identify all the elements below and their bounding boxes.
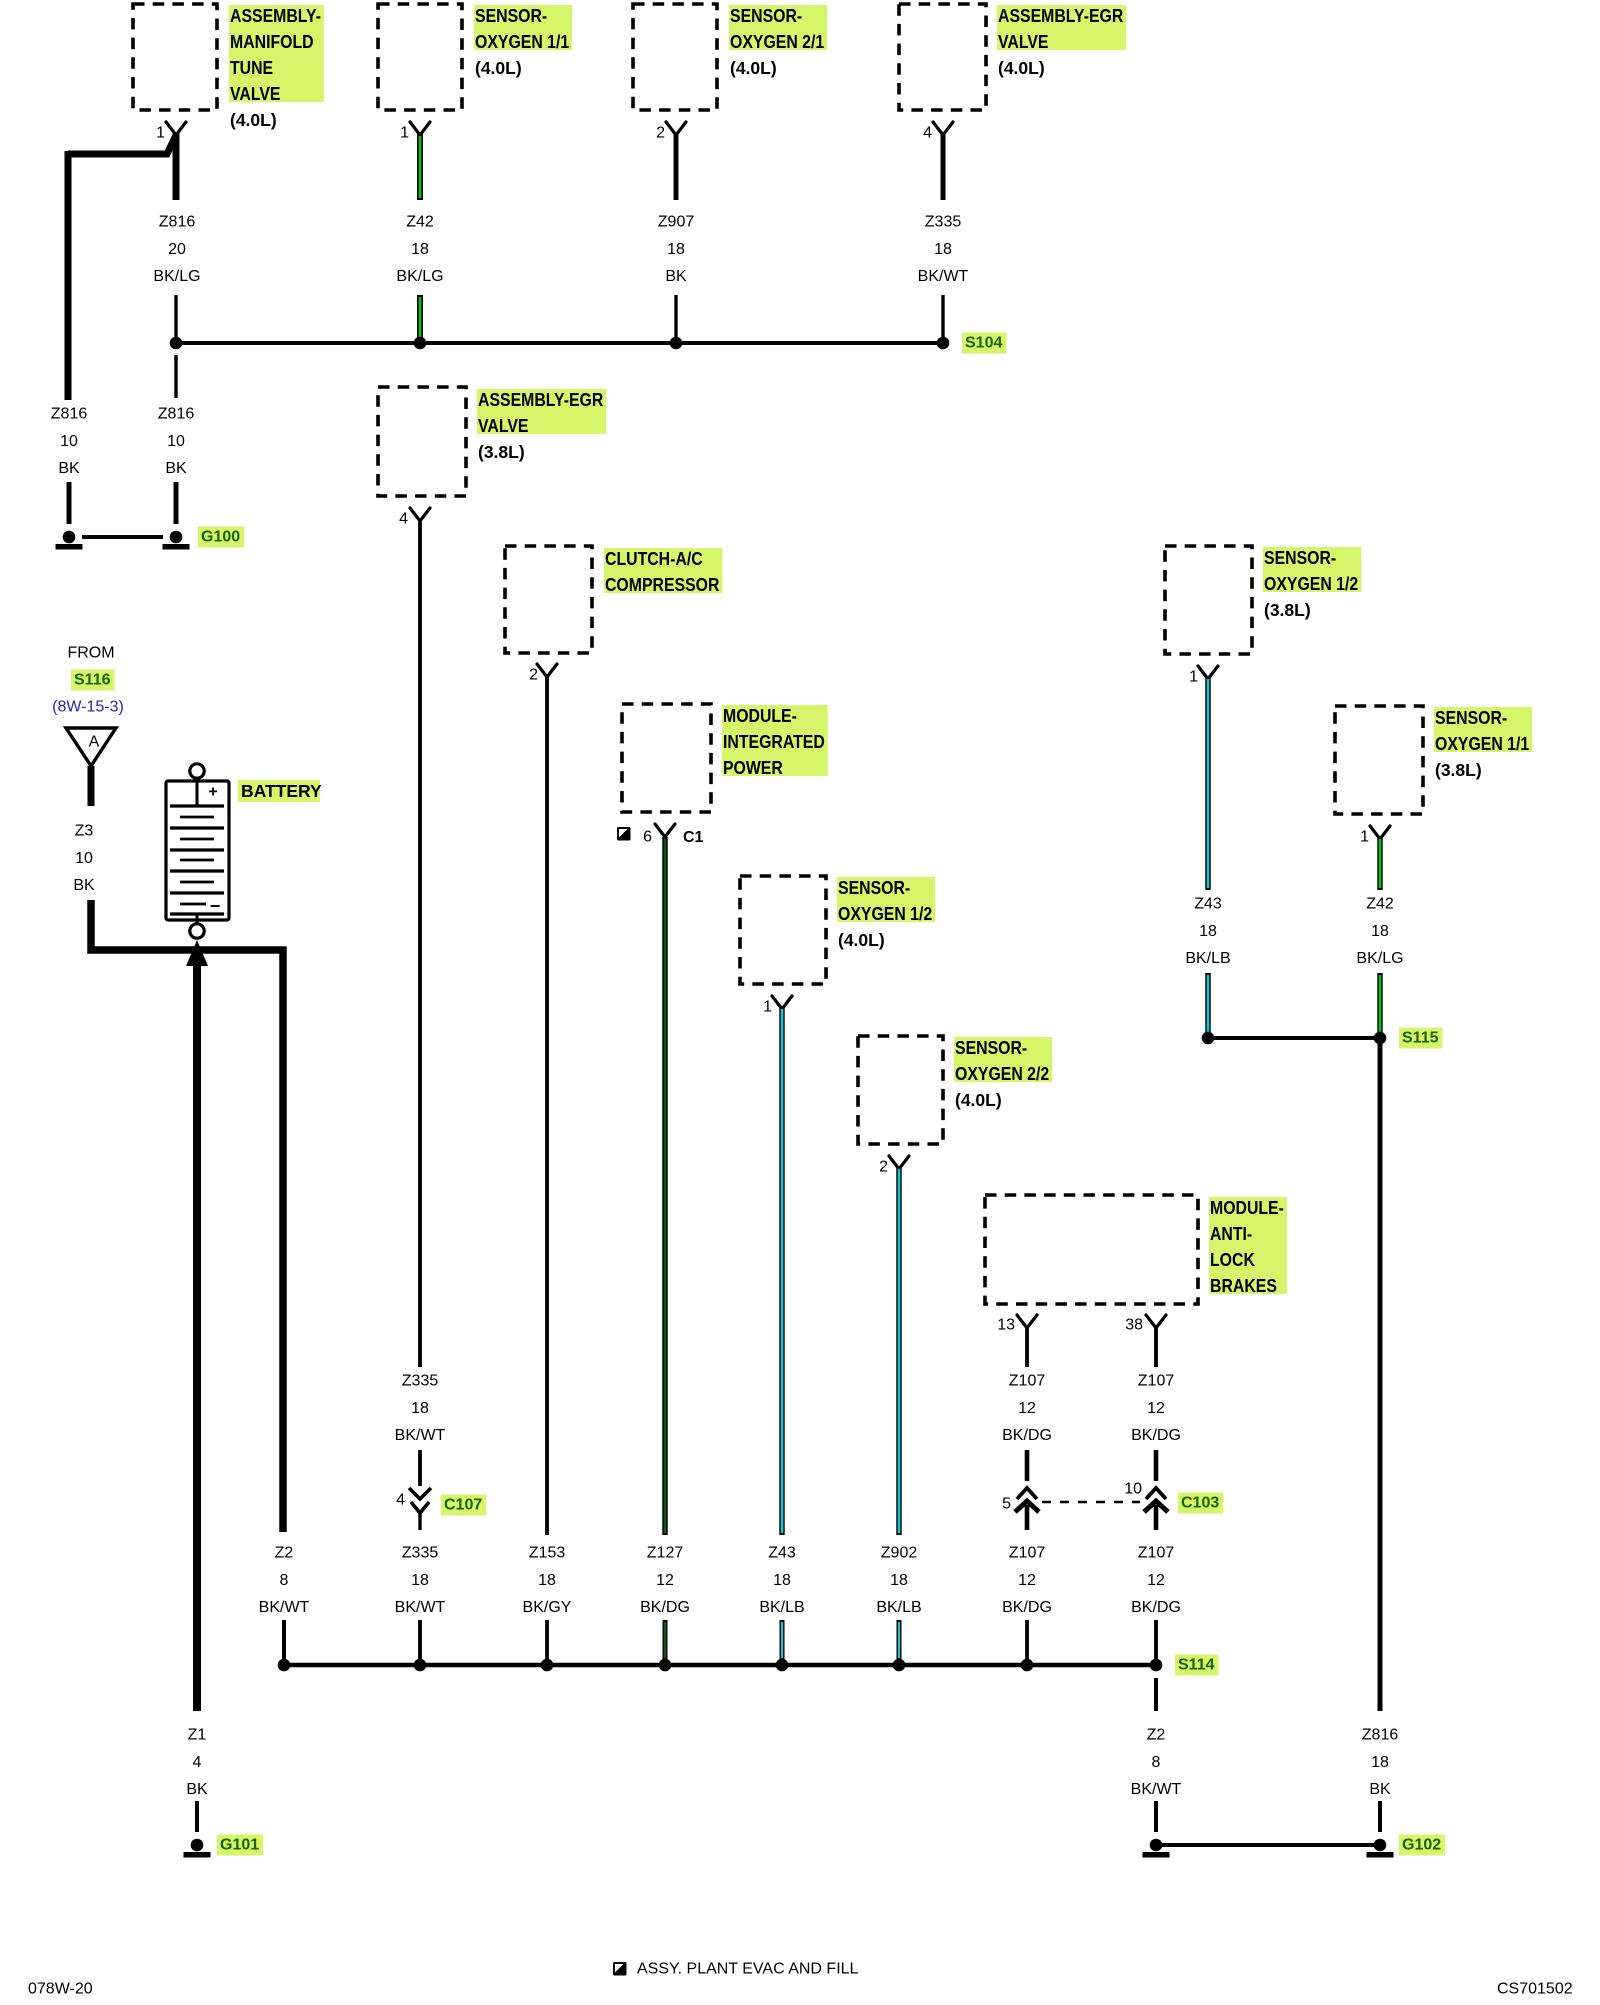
wire stub to G102 right ground	[1378, 1801, 1382, 1832]
junction at Z335 on S104 (bus end)	[937, 337, 950, 350]
wire segment Z43 to S115	[1205, 973, 1210, 1034]
component box: module-integrated power	[622, 704, 711, 812]
wire segment Z107 (13) to S114 bus	[1025, 1620, 1029, 1660]
connector Y at manifold tune valve pin 1	[166, 122, 186, 135]
wire Z43 18 BK/LB from oxygen sensor 1/2 (4.0L) (black with light blue tracer)	[779, 1007, 784, 1535]
connector Y at A/C clutch pin 2	[537, 664, 557, 677]
svg-text:18: 18	[411, 1400, 429, 1417]
wire Z42 18 BK/LG from oxygen sensor 1/1 (black with light green tracer)	[417, 133, 423, 340]
svg-text:BK/WT: BK/WT	[395, 1599, 446, 1616]
wire segment Z127 to S114 bus	[663, 1620, 668, 1660]
svg-text:078W-20: 078W-20	[28, 1981, 93, 1998]
label SENSOR-OXYGEN 2/1 (4.0L)	[729, 5, 827, 78]
wire segment Z42 to S115	[1377, 973, 1382, 1034]
component box: module-anti-lock brakes	[985, 1195, 1198, 1304]
svg-text:1: 1	[763, 999, 772, 1016]
svg-text:18: 18	[1199, 923, 1217, 940]
svg-text:38: 38	[1125, 1317, 1143, 1334]
svg-text:ASSEMBLY-EGR: ASSEMBLY-EGR	[478, 390, 603, 410]
svg-text:18: 18	[667, 241, 685, 258]
svg-text:OXYGEN 1/2: OXYGEN 1/2	[838, 904, 932, 924]
wire Z42 18 BK/LG from oxygen sensor 1/1 (3.8L) (black with light green tracer)	[1377, 837, 1382, 890]
wire segment Z816 to S104 bus	[174, 295, 177, 340]
component box: sensor-oxygen 1/1 (4.0L)	[378, 4, 462, 110]
svg-text:BK/WT: BK/WT	[259, 1599, 310, 1616]
wire label Z107 12 BK/DG (pin 38, below C103)	[1131, 1545, 1181, 1617]
svg-text:INTEGRATED: INTEGRATED	[723, 732, 825, 752]
svg-text:OXYGEN 1/1: OXYGEN 1/1	[475, 32, 569, 52]
net label C107	[441, 1495, 486, 1516]
component box: assembly-EGR valve (4.0L)	[899, 4, 986, 110]
svg-text:CLUTCH-A/C: CLUTCH-A/C	[605, 549, 703, 569]
svg-text:VALVE: VALVE	[230, 84, 281, 104]
svg-text:Z902: Z902	[881, 1545, 918, 1562]
splice bus S104	[176, 341, 943, 345]
component box: assembly-manifold tune valve (4.0L)	[133, 4, 217, 110]
wire label Z107 12 BK/DG (pin 13, below C103)	[1002, 1545, 1052, 1617]
svg-text:MODULE-: MODULE-	[723, 706, 797, 726]
ground G102 left (from S114)	[1143, 1839, 1170, 1858]
wire label Z816 20 BK/LG	[153, 214, 200, 286]
connector Y at ABS module pin 13	[1017, 1315, 1037, 1328]
wire Z816 below S104 junction	[174, 355, 177, 398]
svg-text:10: 10	[60, 433, 78, 450]
svg-text:G102: G102	[1402, 1837, 1441, 1854]
svg-text:Z335: Z335	[925, 214, 962, 231]
wire label Z816 18 BK (right)	[1362, 1727, 1399, 1799]
wire segment Z43 to S114 bus	[780, 1620, 785, 1660]
label MODULE-ANTI-LOCK BRAKES	[1209, 1197, 1287, 1296]
svg-text:18: 18	[890, 1572, 908, 1589]
svg-text:1: 1	[1360, 829, 1369, 846]
svg-text:(4.0L): (4.0L)	[955, 1090, 1002, 1110]
svg-text:(4.0L): (4.0L)	[475, 58, 522, 78]
svg-text:10: 10	[75, 850, 93, 867]
svg-text:BK/GY: BK/GY	[523, 1599, 572, 1616]
wire link between G100 grounds	[82, 535, 163, 539]
in-line connector C107 (pin 4)	[409, 1488, 431, 1530]
net label G100	[198, 527, 244, 548]
wire label Z3 10 BK	[73, 823, 95, 895]
in-line connector C103 pin 10	[1144, 1488, 1168, 1530]
svg-text:12: 12	[1147, 1572, 1165, 1589]
label MODULE-INTEGRATED POWER	[722, 705, 828, 778]
svg-text:18: 18	[1371, 923, 1389, 940]
connector Y at integrated power module pin 6 (C1)	[655, 824, 675, 837]
wire label Z902 18 BK/LB	[876, 1545, 921, 1617]
wire label Z43 18 BK/LB (right)	[1185, 896, 1230, 968]
svg-text:(4.0L): (4.0L)	[838, 930, 885, 950]
svg-text:2: 2	[656, 125, 665, 142]
svg-text:8: 8	[280, 1572, 289, 1589]
wire segment Z107 (38) to S114 bus	[1154, 1620, 1158, 1660]
battery negative feed arrow	[186, 940, 208, 966]
svg-text:BK/DG: BK/DG	[1002, 1599, 1052, 1616]
svg-text:BK: BK	[186, 1781, 208, 1798]
connector Y at oxygen sensor 1/1 (3.8L) pin 1	[1370, 826, 1390, 839]
splice bus S114	[284, 1663, 1156, 1667]
svg-text:SENSOR-: SENSOR-	[955, 1038, 1027, 1058]
svg-text:SENSOR-: SENSOR-	[1264, 548, 1336, 568]
svg-text:Z107: Z107	[1138, 1373, 1175, 1390]
svg-text:CS701502: CS701502	[1497, 1981, 1573, 1998]
connector Y at oxygen sensor 2/1 pin 2	[666, 122, 686, 135]
svg-text:OXYGEN 1/2: OXYGEN 1/2	[1264, 574, 1358, 594]
svg-text:(4.0L): (4.0L)	[730, 58, 777, 78]
svg-text:Z153: Z153	[529, 1545, 566, 1562]
junction at Z816 on S104	[170, 337, 183, 350]
component box: assembly-EGR valve (3.8L)	[378, 387, 466, 496]
net label S104	[962, 333, 1006, 354]
ground G100 right	[163, 531, 190, 550]
svg-text:POWER: POWER	[723, 758, 783, 778]
wire stub into C103 pin 5	[1025, 1450, 1030, 1481]
svg-text:BK/DG: BK/DG	[1131, 1427, 1181, 1444]
wire segment Z335 to S114 bus	[418, 1620, 422, 1660]
svg-text:MANIFOLD: MANIFOLD	[230, 32, 314, 52]
wire label Z42 18 BK/LG	[396, 214, 443, 286]
svg-text:S114: S114	[1178, 1657, 1215, 1674]
wire Z107 12 BK/DG from ABS pin 13	[1025, 1326, 1029, 1367]
svg-text:Z107: Z107	[1138, 1545, 1175, 1562]
svg-text:Z3: Z3	[75, 823, 94, 840]
wire Z3 10 BK upper segment	[88, 766, 95, 806]
component box: sensor-oxygen 1/2 (3.8L)	[1165, 546, 1252, 654]
svg-text:BK: BK	[73, 877, 95, 894]
component box: sensor-oxygen 2/1 (4.0L)	[633, 4, 717, 110]
svg-text:+: +	[208, 784, 217, 801]
wire label Z335 18 BK/WT (above C107)	[395, 1373, 446, 1445]
wire link between G102 grounds	[1156, 1843, 1380, 1847]
wire label Z816 10 BK (under S104)	[158, 406, 195, 478]
svg-text:8: 8	[1152, 1754, 1161, 1771]
svg-text:A: A	[89, 734, 100, 751]
connector Y at oxygen sensor 1/1 pin 1	[410, 122, 430, 135]
label SENSOR-OXYGEN 2/2 (4.0L)	[954, 1037, 1052, 1110]
svg-text:VALVE: VALVE	[478, 416, 529, 436]
svg-text:18: 18	[1371, 1754, 1389, 1771]
svg-text:Z42: Z42	[406, 214, 434, 231]
svg-text:18: 18	[934, 241, 952, 258]
svg-text:12: 12	[1018, 1572, 1036, 1589]
junction at Z153 on S114	[541, 1659, 554, 1672]
junction at Z42 on S104	[414, 337, 427, 350]
dashed link between C103 halves	[1042, 1501, 1140, 1504]
svg-text:Z816: Z816	[158, 406, 195, 423]
svg-text:2: 2	[879, 1159, 888, 1176]
label SENSOR-OXYGEN 1/1 (3.8L)	[1434, 707, 1532, 780]
svg-text:BK/LB: BK/LB	[1185, 950, 1230, 967]
svg-text:BK/LG: BK/LG	[1356, 950, 1403, 967]
svg-text:13: 13	[997, 1317, 1015, 1334]
svg-text:BK/LB: BK/LB	[876, 1599, 921, 1616]
svg-text:SENSOR-: SENSOR-	[730, 6, 802, 26]
wire stub to G102 left ground	[1154, 1801, 1158, 1832]
svg-text:Z335: Z335	[402, 1545, 439, 1562]
junction at Z335 on S114	[414, 1659, 427, 1672]
svg-text:1: 1	[400, 125, 409, 142]
wire label Z107 12 BK/DG (pin 38, above C103)	[1131, 1373, 1181, 1445]
svg-text:BK: BK	[58, 460, 80, 477]
svg-text:Z816: Z816	[1362, 1727, 1399, 1744]
svg-text:BRAKES: BRAKES	[1210, 1276, 1277, 1296]
wire Z816 20 BK/LG from manifold tune valve pin 1 (heavy upper segment with branch to left)	[68, 133, 176, 400]
svg-text:2: 2	[529, 667, 538, 684]
junction at Z42 on S115 (splice)	[1374, 1032, 1387, 1045]
svg-text:BK/LG: BK/LG	[153, 268, 200, 285]
svg-text:C107: C107	[444, 1497, 482, 1514]
in-line connector C103 pin 5	[1015, 1488, 1039, 1530]
svg-text:18: 18	[538, 1572, 556, 1589]
junction at Z43 on S115	[1202, 1032, 1215, 1045]
svg-text:6: 6	[643, 829, 652, 846]
wire label Z816 10 BK (left branch)	[51, 406, 88, 478]
wire label Z42 18 BK/LG (right)	[1356, 896, 1403, 968]
svg-text:G101: G101	[220, 1837, 259, 1854]
wire Z3 lower segment to battery negative feed	[91, 900, 283, 1532]
wire segment Z902 to S114 bus	[897, 1620, 902, 1660]
svg-text:C103: C103	[1181, 1495, 1219, 1512]
svg-text:BATTERY: BATTERY	[241, 781, 322, 801]
svg-text:18: 18	[411, 1572, 429, 1589]
svg-text:18: 18	[411, 241, 429, 258]
wire label Z907 18 BK	[658, 214, 695, 286]
wire stub to G101 ground	[195, 1801, 199, 1832]
component box: sensor-oxygen 1/2 (4.0L)	[740, 876, 826, 984]
off-page connector triangle A from S116	[66, 728, 116, 766]
svg-text:−: −	[210, 896, 221, 916]
svg-text:(3.8L): (3.8L)	[1435, 760, 1482, 780]
junction at Z43 on S114	[776, 1659, 789, 1672]
svg-text:(3.8L): (3.8L)	[1264, 600, 1311, 620]
svg-text:Z2: Z2	[1147, 1727, 1166, 1744]
wire below S114 junction	[1154, 1678, 1158, 1711]
label CLUTCH-A/C COMPRESSOR	[604, 548, 722, 595]
svg-text:FROM: FROM	[67, 645, 114, 662]
splice link S115	[1208, 1036, 1380, 1040]
battery negative terminal	[190, 924, 204, 938]
svg-text:5: 5	[1002, 1496, 1011, 1513]
svg-text:OXYGEN 2/2: OXYGEN 2/2	[955, 1064, 1049, 1084]
svg-text:Z816: Z816	[51, 406, 88, 423]
svg-text:OXYGEN 1/1: OXYGEN 1/1	[1435, 734, 1529, 754]
svg-text:Z43: Z43	[1194, 896, 1222, 913]
label ASSEMBLY-EGR VALVE (3.8L)	[477, 389, 606, 462]
wire label Z335 18 BK/WT (below C107)	[395, 1545, 446, 1617]
connector Y at EGR valve (4.0L) pin 4	[933, 122, 953, 135]
svg-text:Z335: Z335	[402, 1373, 439, 1390]
connector Y at oxygen sensor 1/2 (3.8L) pin 1	[1198, 666, 1218, 679]
svg-text:Z1: Z1	[188, 1727, 207, 1744]
svg-text:18: 18	[773, 1572, 791, 1589]
label ASSEMBLY-MANIFOLD TUNE VALVE (4.0L)	[229, 5, 324, 130]
wire stub into C107	[418, 1450, 422, 1486]
wire Z335 18 BK/WT from EGR valve (4.0L)	[941, 133, 946, 340]
label BATTERY	[238, 780, 322, 802]
svg-text:(3.8L): (3.8L)	[478, 442, 525, 462]
junction at Z107-13 on S114	[1021, 1659, 1034, 1672]
junction at Z107-38 on S114 (bus end)	[1150, 1659, 1163, 1672]
svg-text:COMPRESSOR: COMPRESSOR	[605, 575, 719, 595]
svg-text:Z42: Z42	[1366, 896, 1394, 913]
component box: clutch-A/C compressor	[505, 546, 592, 653]
component box: sensor-oxygen 1/1 (3.8L)	[1335, 706, 1423, 814]
junction at Z907 on S104	[670, 337, 683, 350]
svg-text:(4.0L): (4.0L)	[998, 58, 1045, 78]
svg-text:12: 12	[1147, 1400, 1165, 1417]
net label S114	[1175, 1655, 1218, 1676]
svg-text:12: 12	[1018, 1400, 1036, 1417]
svg-text:BK/WT: BK/WT	[395, 1427, 446, 1444]
wire label Z43 18 BK/LB (center)	[759, 1545, 804, 1617]
label ASSEMBLY-EGR VALVE (4.0L)	[997, 5, 1126, 78]
svg-text:Z2: Z2	[275, 1545, 294, 1562]
svg-text:SENSOR-: SENSOR-	[838, 878, 910, 898]
connector Y at oxygen sensor 1/2 (4.0L) pin 1	[772, 996, 792, 1009]
wire label Z1 4 BK	[186, 1727, 208, 1799]
net label G102	[1399, 1835, 1445, 1856]
svg-text:C1: C1	[683, 829, 704, 846]
battery B+ terminal	[190, 764, 204, 778]
wire stub to right G100 ground	[174, 482, 179, 524]
svg-text:Z127: Z127	[647, 1545, 684, 1562]
svg-text:10: 10	[167, 433, 185, 450]
svg-text:ANTI-: ANTI-	[1210, 1224, 1252, 1244]
component box: sensor-oxygen 2/2 (4.0L)	[858, 1036, 943, 1144]
svg-text:VALVE: VALVE	[998, 32, 1049, 52]
svg-text:ASSEMBLY-: ASSEMBLY-	[230, 6, 321, 26]
label SENSOR-OXYGEN 1/2 (3.8L)	[1263, 547, 1361, 620]
wire segment Z153 to S114 bus	[545, 1620, 549, 1660]
svg-text:BK/WT: BK/WT	[1131, 1781, 1182, 1798]
svg-text:S104: S104	[965, 335, 1002, 352]
svg-text:Z107: Z107	[1009, 1545, 1046, 1562]
svg-text:LOCK: LOCK	[1210, 1250, 1255, 1270]
svg-text:(4.0L): (4.0L)	[230, 110, 277, 130]
svg-text:G100: G100	[201, 529, 240, 546]
svg-text:ASSEMBLY-EGR: ASSEMBLY-EGR	[998, 6, 1123, 26]
svg-text:BK/DG: BK/DG	[1002, 1427, 1052, 1444]
svg-text:12: 12	[656, 1572, 674, 1589]
assy plant evac and fill legend marker	[613, 1962, 627, 1976]
wire label Z2 8 BK/WT (upper)	[259, 1545, 310, 1617]
wire segment Z2 to S114 bus	[282, 1620, 286, 1660]
svg-text:4: 4	[396, 1492, 405, 1509]
wire Z107 12 BK/DG from ABS pin 38	[1154, 1326, 1158, 1367]
svg-text:ASSY. PLANT EVAC AND FILL: ASSY. PLANT EVAC AND FILL	[637, 1961, 859, 1978]
svg-text:BK: BK	[1369, 1781, 1391, 1798]
svg-text:BK/LB: BK/LB	[759, 1599, 804, 1616]
label SENSOR-OXYGEN 1/2 (4.0L)	[837, 877, 935, 950]
svg-text:Z816: Z816	[159, 214, 196, 231]
ground G102 right	[1367, 1839, 1394, 1858]
svg-text:20: 20	[168, 241, 186, 258]
wire Z1 4 BK heavy run from battery negative to G101	[193, 952, 201, 1711]
connector Y at EGR valve (3.8L) pin 4	[410, 508, 430, 521]
svg-text:4: 4	[923, 125, 932, 142]
svg-text:Z107: Z107	[1009, 1373, 1046, 1390]
net label C103	[1178, 1493, 1223, 1514]
ground G100 left	[56, 531, 83, 550]
junction at Z127 on S114	[659, 1659, 672, 1672]
svg-text:BK/WT: BK/WT	[918, 268, 969, 285]
wire Z907 18 BK from oxygen sensor 2/1	[674, 133, 679, 340]
svg-text:4: 4	[193, 1754, 202, 1771]
ground G101	[184, 1839, 211, 1858]
svg-text:BK: BK	[665, 268, 687, 285]
battery body	[166, 779, 229, 924]
svg-text:MODULE-: MODULE-	[1210, 1198, 1284, 1218]
wire Z127 12 BK/DG from integrated power module (black with dark green tracer)	[662, 837, 667, 1535]
wire label Z127 12 BK/DG	[640, 1545, 690, 1617]
net label S116	[71, 670, 114, 691]
svg-text:BK/DG: BK/DG	[640, 1599, 690, 1616]
wire Z816 18 BK from S115 to G102	[1378, 1038, 1383, 1711]
net label G101	[217, 1835, 263, 1856]
svg-text:Z907: Z907	[658, 214, 695, 231]
svg-text:BK/LG: BK/LG	[396, 268, 443, 285]
svg-text:TUNE: TUNE	[230, 58, 273, 78]
svg-text:4: 4	[399, 511, 408, 528]
wire stub into C103 pin 10	[1154, 1450, 1159, 1481]
wire label Z2 8 BK/WT (lower)	[1131, 1727, 1182, 1799]
svg-text:SENSOR-: SENSOR-	[1435, 708, 1507, 728]
svg-text:BK/DG: BK/DG	[1131, 1599, 1181, 1616]
svg-text:SENSOR-: SENSOR-	[475, 6, 547, 26]
wire stub to left ground	[67, 482, 72, 524]
svg-text:1: 1	[156, 125, 165, 142]
wire label Z107 12 BK/DG (pin 13, above C103)	[1002, 1373, 1052, 1445]
svg-text:S115: S115	[1402, 1030, 1439, 1047]
wire label Z153 18 BK/GY	[523, 1545, 572, 1617]
label SENSOR-OXYGEN 1/1 (4.0L)	[474, 5, 572, 78]
wire Z902 18 BK/LB from oxygen sensor 2/2 (black with light blue tracer)	[896, 1167, 901, 1535]
wire label Z335 18 BK/WT (upper)	[918, 214, 969, 286]
junction at Z902 on S114	[893, 1659, 906, 1672]
svg-text:Z43: Z43	[768, 1545, 796, 1562]
svg-text:BK: BK	[165, 460, 187, 477]
svg-text:1: 1	[1189, 669, 1198, 686]
assy plant evac and fill marker at C1	[617, 827, 631, 841]
wire Z43 18 BK/LB from oxygen sensor 1/2 (3.8L) (black with light blue tracer)	[1205, 677, 1210, 890]
svg-text:(8W-15-3): (8W-15-3)	[52, 699, 124, 716]
junction at Z2 on S114 (bus start)	[278, 1659, 291, 1672]
wire Z335 18 BK/WT long run from EGR valve (3.8L) to C107	[418, 519, 422, 1367]
svg-text:10: 10	[1124, 1481, 1142, 1498]
svg-text:S116: S116	[74, 672, 111, 689]
connector Y at oxygen sensor 2/2 (4.0L) pin 2	[889, 1156, 909, 1169]
net label S115	[1399, 1028, 1442, 1049]
connector Y at ABS module pin 38	[1146, 1315, 1166, 1328]
wire Z153 18 BK/GY from A/C clutch	[545, 675, 549, 1535]
svg-text:OXYGEN 2/1: OXYGEN 2/1	[730, 32, 824, 52]
